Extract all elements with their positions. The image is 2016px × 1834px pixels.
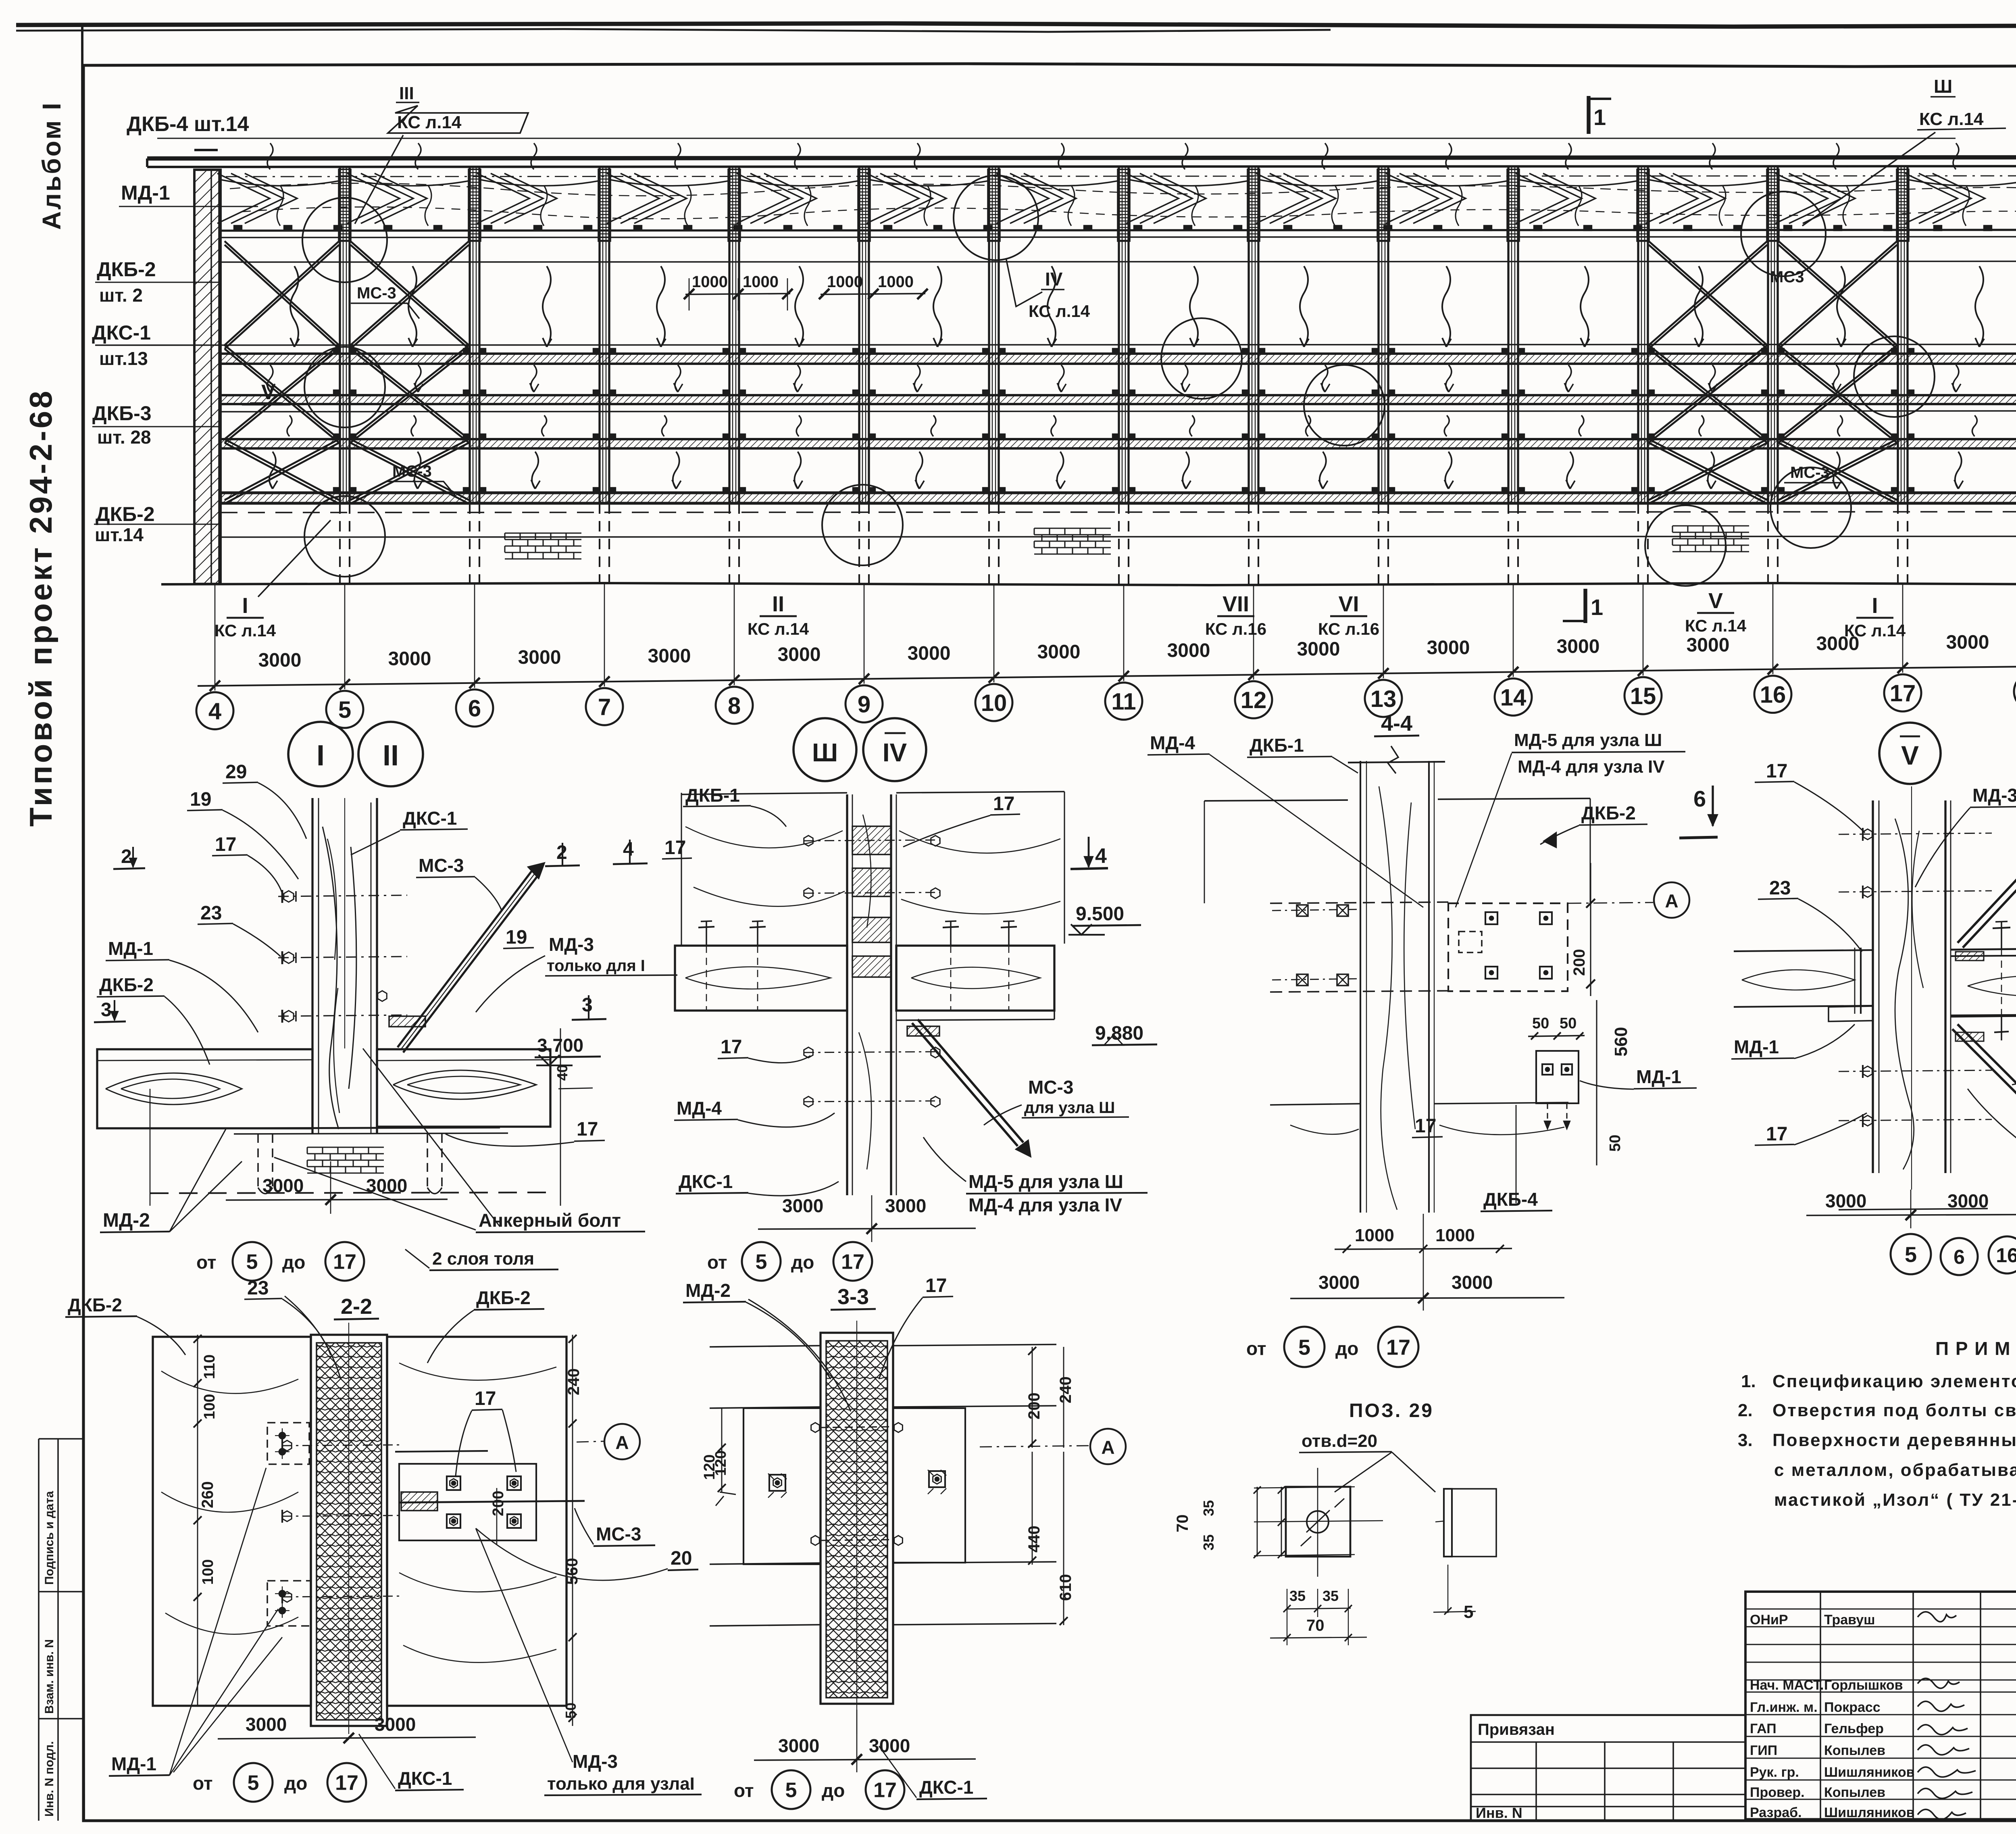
detail 4-4 dashed lines top — [1270, 902, 1448, 903]
svg-text:КС л.14: КС л.14 — [748, 619, 809, 638]
detail 4-4 bottom dims 1000 1000 — [1335, 1248, 1512, 1249]
svg-text:17: 17 — [841, 1250, 864, 1274]
svg-text:17: 17 — [335, 1771, 358, 1795]
svg-text:МС-3: МС-3 — [1028, 1077, 1073, 1098]
svg-text:1000: 1000 — [743, 273, 779, 291]
svg-text:9: 9 — [858, 691, 871, 717]
svg-text:240: 240 — [1057, 1376, 1075, 1403]
svg-text:12: 12 — [1241, 687, 1267, 713]
svg-text:ДКС-1: ДКС-1 — [679, 1171, 733, 1192]
detail III-IV column — [846, 794, 848, 1195]
svg-text:3000: 3000 — [1318, 1272, 1360, 1293]
detail 4-4 lower plate with bolts — [1536, 1051, 1579, 1103]
svg-text:5: 5 — [1905, 1242, 1917, 1267]
svg-text:V: V — [1708, 589, 1723, 613]
svg-text:3000: 3000 — [1452, 1272, 1493, 1293]
svg-text:МД-4: МД-4 — [1150, 732, 1195, 753]
title block signatures scribbles — [1918, 1612, 1956, 1622]
svg-text:КС л.14: КС л.14 — [397, 113, 462, 132]
svg-text:МД-4 для узла IV: МД-4 для узла IV — [1518, 757, 1665, 777]
svg-text:260: 260 — [199, 1481, 217, 1508]
svg-text:610: 610 — [1057, 1574, 1075, 1601]
detail 4-4 top wood edges — [1204, 800, 1348, 801]
svg-text:Поверхности деревянных элеме: Поверхности деревянных элементов, соприк… — [1772, 1430, 2016, 1450]
svg-text:1000: 1000 — [878, 273, 914, 291]
svg-text:отв.d=20: отв.d=20 — [1302, 1431, 1377, 1451]
svg-text:КС л.14: КС л.14 — [1685, 616, 1747, 635]
svg-text:6: 6 — [468, 696, 481, 722]
svg-text:17: 17 — [664, 837, 686, 859]
detail III-IV stud bolts on beams — [706, 921, 707, 946]
svg-text:МД-1: МД-1 — [1636, 1066, 1681, 1087]
svg-text:ДКБ-1: ДКБ-1 — [685, 785, 740, 806]
svg-text:17: 17 — [475, 1388, 496, 1409]
svg-text:от: от — [1246, 1338, 1266, 1359]
section cut mark 1 bottom — [1583, 589, 1587, 623]
svg-text:5: 5 — [1298, 1335, 1310, 1359]
svg-text:МД-3: МД-3 — [1972, 785, 2016, 806]
svg-text:Ш: Ш — [1934, 76, 1952, 97]
svg-text:А: А — [1665, 890, 1678, 911]
svg-text:ДКБ-2: ДКБ-2 — [99, 974, 154, 995]
svg-text:Копылев: Копылев — [1824, 1743, 1885, 1758]
detail I-II column — [311, 798, 313, 1134]
svg-text:от: от — [193, 1773, 212, 1794]
title block привязан table — [1471, 1715, 1745, 1821]
svg-text:15: 15 — [1630, 683, 1656, 709]
svg-text:120: 120 — [701, 1455, 718, 1480]
svg-text:5: 5 — [785, 1779, 797, 1802]
detail 2-2 right beam — [387, 1337, 566, 1706]
svg-text:МС-3: МС-3 — [357, 284, 396, 302]
svg-text:шт.14: шт.14 — [95, 524, 144, 545]
svg-text:17: 17 — [215, 834, 236, 855]
svg-text:МД-2: МД-2 — [103, 1210, 150, 1231]
svg-text:до: до — [284, 1773, 307, 1794]
svg-text:5: 5 — [246, 1250, 258, 1274]
dim 1000 1000 pair B — [821, 294, 925, 294]
svg-text:ДКБ-2: ДКБ-2 — [97, 258, 156, 281]
svg-text:100: 100 — [200, 1559, 217, 1585]
svg-text:I: I — [1872, 594, 1878, 618]
svg-text:ДКБ-2: ДКБ-2 — [1581, 802, 1636, 823]
svg-text:17: 17 — [1890, 680, 1916, 707]
svg-text:20: 20 — [671, 1548, 692, 1569]
svg-text:560: 560 — [563, 1558, 581, 1585]
detail 4-4 dim 560 — [1596, 1000, 1597, 1165]
detail V bottom cut lines — [1839, 1209, 1988, 1210]
svg-text:1: 1 — [1593, 104, 1606, 130]
svg-text:МД-2: МД-2 — [685, 1280, 731, 1301]
svg-text:17: 17 — [993, 793, 1014, 815]
posts at grid lines — [339, 167, 341, 503]
svg-text:МС3: МС3 — [1770, 268, 1804, 286]
detail III-IV top wood area — [681, 793, 847, 794]
svg-text:только для I: только для I — [547, 957, 645, 975]
svg-text:для узла Ш: для узла Ш — [1024, 1099, 1115, 1117]
detail 4-4 bottom dims 3000 3000 — [1290, 1298, 1564, 1298]
brick patch 2 — [1034, 527, 1111, 529]
svg-text:3000: 3000 — [1557, 636, 1600, 657]
brick patch 1 — [505, 532, 581, 534]
svg-text:3000: 3000 — [1687, 634, 1730, 656]
svg-text:1: 1 — [1591, 594, 1603, 620]
detail V grid circles — [1891, 1234, 1931, 1274]
svg-text:КС л.14: КС л.14 — [1029, 302, 1090, 321]
detail 3-3 left dim 120 — [721, 1408, 723, 1492]
detail III-IV hatched packs — [852, 826, 891, 854]
svg-text:70: 70 — [1306, 1617, 1325, 1634]
svg-text:МД-5 для узла Ш: МД-5 для узла Ш — [968, 1171, 1123, 1192]
detail I-II bottom dims — [226, 1199, 448, 1200]
svg-text:ДКБ-2: ДКБ-2 — [476, 1287, 531, 1308]
svg-text:до: до — [791, 1252, 814, 1273]
svg-text:II: II — [772, 592, 784, 616]
svg-text:5: 5 — [338, 697, 351, 723]
svg-text:1000: 1000 — [1355, 1225, 1394, 1245]
svg-text:ДКБ-4 шт.14: ДКБ-4 шт.14 — [127, 113, 249, 136]
svg-text:2.: 2. — [1738, 1401, 1753, 1420]
svg-text:3000: 3000 — [1946, 632, 1989, 653]
svg-text:3000: 3000 — [869, 1735, 910, 1756]
svg-text:3000: 3000 — [1167, 640, 1210, 661]
svg-text:200: 200 — [490, 1491, 507, 1516]
detail V bolt rows — [1839, 833, 1992, 834]
svg-text:2: 2 — [121, 846, 132, 867]
dimension row 3000 — [198, 666, 2016, 686]
svg-text:МД-4: МД-4 — [677, 1098, 722, 1119]
svg-text:3000: 3000 — [648, 646, 691, 667]
svg-text:ДКС-1: ДКС-1 — [919, 1777, 973, 1798]
detail I-II brick patch — [307, 1146, 384, 1148]
svg-text:Нач. МАСТ.: Нач. МАСТ. — [1750, 1678, 1824, 1693]
svg-text:200: 200 — [1025, 1392, 1043, 1419]
detail 2-2 right dim chain — [572, 1335, 573, 1726]
sheet top edge line — [16, 23, 2016, 27]
detail III-IV diagonal МС-3 — [912, 1023, 1018, 1146]
поз.29 square plate — [1286, 1487, 1350, 1557]
svg-text:70: 70 — [1174, 1515, 1191, 1533]
detail I-II dashed ground line — [150, 1192, 550, 1193]
svg-text:200: 200 — [1570, 949, 1588, 976]
detail V beam right — [1951, 955, 2016, 956]
svg-text:19: 19 — [506, 927, 527, 948]
svg-text:35: 35 — [1322, 1588, 1339, 1604]
detail I-II beam right — [377, 1049, 550, 1127]
svg-text:17: 17 — [1766, 1123, 1787, 1145]
svg-text:3000: 3000 — [1825, 1190, 1866, 1211]
svg-text:ДКБ-2: ДКБ-2 — [96, 503, 155, 525]
detail 4-4 column — [1360, 761, 1361, 1213]
ground line — [161, 583, 2016, 585]
svg-text:мастикой „Изол“ ( ТУ 21-27: мастикой „Изол“ ( ТУ 21-27-37-74). — [1774, 1490, 2016, 1510]
svg-text:3: 3 — [101, 999, 112, 1021]
detail I-II vertical dim line right — [560, 1028, 561, 1206]
svg-text:23: 23 — [200, 902, 222, 924]
svg-text:ДКС-1: ДКС-1 — [92, 321, 151, 344]
detail V node circle — [1879, 723, 1941, 784]
level line ДКБ-2 — [221, 261, 2016, 262]
svg-text:Альбом I: Альбом I — [37, 101, 66, 230]
axis circle A right of 3-3 — [980, 1446, 1089, 1447]
svg-text:Гельфер: Гельфер — [1824, 1721, 1884, 1736]
svg-text:Ш: Ш — [812, 738, 838, 767]
svg-text:3-3: 3-3 — [837, 1285, 869, 1309]
svg-text:3000: 3000 — [1297, 639, 1340, 660]
svg-text:шт. 28: шт. 28 — [97, 427, 151, 448]
detail III-IV lower bolts — [804, 1052, 939, 1052]
section cut mark 1 top — [1587, 96, 1590, 134]
svg-text:3000: 3000 — [778, 644, 821, 665]
svg-text:3000: 3000 — [1816, 633, 1860, 654]
поз.29 side view bar — [1444, 1489, 1452, 1557]
svg-text:МД-1: МД-1 — [121, 181, 170, 204]
svg-text:ДКБ-1: ДКБ-1 — [1250, 735, 1304, 756]
svg-text:3000: 3000 — [258, 650, 302, 671]
svg-text:17: 17 — [1386, 1335, 1410, 1359]
detail I-II diagonal brace МС-3 — [398, 870, 533, 1047]
detail V column — [1872, 800, 1874, 1173]
svg-text:Копылев: Копылев — [1824, 1785, 1885, 1800]
detail III-IV bolts through packs — [804, 840, 939, 841]
beam bottom chord ДКБ-2 hatched — [221, 493, 2016, 503]
detail 2-2 bolts through column — [282, 1445, 399, 1446]
svg-text:23: 23 — [1769, 877, 1791, 899]
detail 3-3 bottom dims — [754, 1759, 976, 1760]
svg-text:Инв. N: Инв. N — [1476, 1805, 1522, 1821]
detail III-IV beam right — [896, 946, 1054, 1011]
svg-text:17: 17 — [1766, 761, 1787, 782]
svg-text:100: 100 — [201, 1394, 218, 1419]
beam ДКБ-3 row2 hatched — [221, 395, 2016, 404]
svg-text:5: 5 — [248, 1771, 259, 1795]
detail 4-4 dashed plate МД-5 — [1448, 903, 1568, 991]
detail 3-3 beam lines — [710, 1346, 821, 1347]
svg-text:35: 35 — [1289, 1588, 1306, 1604]
svg-text:Отверстия под болты сверлит: Отверстия под болты сверлить на монтаже … — [1772, 1401, 2016, 1420]
top chord beam МД-1 — [147, 157, 2016, 158]
svg-text:КС л.14: КС л.14 — [1919, 109, 1984, 129]
svg-text:1000: 1000 — [1435, 1225, 1475, 1245]
svg-text:16: 16 — [1760, 682, 1786, 708]
svg-text:КС л.14: КС л.14 — [215, 621, 276, 640]
svg-text:2-2: 2-2 — [341, 1294, 372, 1319]
svg-text:3000: 3000 — [518, 647, 561, 668]
svg-text:от: от — [196, 1252, 216, 1273]
svg-text:4: 4 — [1095, 844, 1107, 868]
svg-text:3000: 3000 — [782, 1195, 823, 1216]
svg-text:110: 110 — [201, 1355, 218, 1379]
svg-text:КС л.16: КС л.16 — [1318, 619, 1379, 638]
detail 2-2 dashed plates left — [267, 1423, 309, 1464]
detail 2-2 column crosshatched — [311, 1335, 387, 1726]
detail 2-2 left beam — [153, 1337, 311, 1706]
detail 3-3 stud bolts — [821, 1427, 893, 1428]
svg-text:Рук. гр.: Рук. гр. — [1750, 1765, 1799, 1780]
svg-text:4: 4 — [208, 698, 221, 724]
svg-text:50: 50 — [1560, 1015, 1577, 1032]
beam ДКБ-3 row3 hatched — [221, 439, 2016, 448]
svg-text:от: от — [734, 1780, 754, 1801]
svg-text:17: 17 — [577, 1119, 598, 1140]
svg-text:35: 35 — [1200, 1500, 1217, 1516]
long grain waves top band — [230, 183, 2016, 196]
svg-text:3000: 3000 — [778, 1735, 819, 1756]
svg-text:А: А — [1101, 1437, 1114, 1458]
svg-text:МС-3: МС-3 — [419, 855, 464, 876]
svg-text:Разраб.: Разраб. — [1750, 1805, 1802, 1820]
svg-text:IV: IV — [1045, 269, 1063, 290]
svg-text:II: II — [383, 740, 399, 772]
svg-text:V: V — [1901, 740, 1919, 770]
detail III-IV node circles — [793, 718, 856, 781]
svg-text:А: А — [615, 1432, 629, 1453]
level line mid — [221, 411, 2016, 412]
svg-text:6: 6 — [1954, 1246, 1965, 1268]
detail I-II beam left — [97, 1049, 312, 1128]
detail V beam left — [1734, 950, 1873, 951]
svg-text:ДКС-1: ДКС-1 — [398, 1768, 452, 1789]
axis circle A right of 2-2 — [577, 1441, 605, 1442]
svg-text:до: до — [1335, 1338, 1358, 1359]
svg-text:16: 16 — [1996, 1244, 2016, 1267]
svg-text:50: 50 — [562, 1703, 579, 1719]
поз.29 bottom dims 35 35 70 — [1286, 1608, 1351, 1609]
svg-text:50: 50 — [1532, 1015, 1549, 1032]
svg-text:Шишляников: Шишляников — [1824, 1805, 1915, 1820]
svg-text:МД-1: МД-1 — [108, 938, 153, 959]
sheet left edge line — [82, 24, 84, 1821]
svg-text:МД-5 для узла Ш: МД-5 для узла Ш — [1514, 730, 1662, 750]
поз.29 left dims 70 35 35 — [1257, 1487, 1258, 1557]
svg-text:КС л.16: КС л.16 — [1205, 619, 1266, 638]
svg-text:VI: VI — [1338, 592, 1359, 616]
svg-text:50: 50 — [1607, 1135, 1624, 1152]
svg-text:МД-1: МД-1 — [1734, 1036, 1779, 1057]
svg-text:3000: 3000 — [1427, 637, 1470, 659]
wall left hatched — [194, 170, 221, 584]
svg-text:3000: 3000 — [246, 1714, 287, 1735]
svg-text:ДКБ-3: ДКБ-3 — [92, 402, 152, 425]
svg-text:240: 240 — [565, 1368, 583, 1395]
svg-text:9.500: 9.500 — [1076, 903, 1124, 925]
svg-text:11: 11 — [1111, 689, 1136, 715]
detail 3-3 column crosshatched — [821, 1333, 893, 1704]
svg-text:40: 40 — [554, 1065, 571, 1081]
svg-text:МД-4 для узла IV: МД-4 для узла IV — [968, 1194, 1122, 1215]
svg-text:Гл.инж. м.: Гл.инж. м. — [1750, 1700, 1818, 1715]
svg-text:17: 17 — [1415, 1115, 1436, 1137]
svg-text:Типовой проект 294-2-68: Типовой проект 294-2-68 — [23, 389, 58, 827]
svg-text:от: от — [707, 1252, 727, 1273]
svg-text:10: 10 — [981, 690, 1007, 716]
svg-text:МС-3: МС-3 — [1790, 464, 1830, 481]
left margin stamp boxes — [38, 1439, 40, 1821]
svg-text:17: 17 — [873, 1779, 897, 1802]
svg-text:14: 14 — [1500, 684, 1527, 711]
svg-text:3000: 3000 — [885, 1195, 926, 1216]
svg-text:4: 4 — [623, 839, 634, 860]
detail I-II base plate and anchor bolts — [242, 1127, 500, 1128]
purlin bolt row — [221, 230, 2016, 231]
svg-text:МД-1: МД-1 — [111, 1753, 156, 1774]
level line ДКС-1 — [95, 344, 2016, 345]
svg-text:Спецификацию элементов ом.: Спецификацию элементов ом. КС л. 20. — [1772, 1371, 2016, 1391]
svg-text:ГИП: ГИП — [1750, 1743, 1777, 1758]
svg-text:с металлом, обрабатывать рези: с металлом, обрабатывать резинобитумной — [1774, 1460, 2016, 1480]
svg-text:6: 6 — [1693, 786, 1706, 811]
level line bottom ДКБ-2 — [221, 536, 2016, 537]
svg-text:3000: 3000 — [1947, 1190, 1989, 1211]
svg-text:III: III — [399, 83, 414, 103]
svg-text:7: 7 — [598, 694, 611, 720]
svg-text:Подпись и дата: Подпись и дата — [43, 1491, 56, 1585]
detail 3-3 right plate — [893, 1408, 965, 1563]
svg-text:V: V — [261, 381, 275, 404]
svg-text:3000: 3000 — [388, 648, 431, 669]
detail III-IV beam left — [675, 946, 847, 1011]
X bracing bays 4-5 5-6 15-16 16-17 — [225, 241, 339, 345]
detail I-II bolts rows — [278, 895, 407, 896]
detail 2-2 left dim chain — [197, 1335, 198, 1706]
svg-text:VII: VII — [1223, 592, 1249, 616]
node circles on elevation — [302, 198, 387, 282]
svg-text:440: 440 — [1025, 1526, 1043, 1553]
wood grain chevrons top band — [217, 173, 2016, 223]
svg-text:1000: 1000 — [827, 273, 863, 291]
svg-text:до: до — [822, 1780, 845, 1801]
svg-text:4-4: 4-4 — [1381, 711, 1412, 736]
beam ДКБ-2 row1 hatched — [221, 354, 2016, 364]
svg-text:МС-3: МС-3 — [392, 463, 432, 480]
svg-text:только для узлаI: только для узлаI — [547, 1774, 695, 1794]
svg-text:3000: 3000 — [908, 643, 951, 664]
detail 4-4 axis line and A circle — [1568, 902, 1653, 903]
svg-text:3.: 3. — [1738, 1430, 1753, 1450]
svg-text:560: 560 — [1611, 1027, 1631, 1057]
svg-text:1.: 1. — [1741, 1371, 1756, 1391]
svg-text:I: I — [317, 740, 325, 772]
svg-text:Инв. N подл.: Инв. N подл. — [43, 1741, 56, 1817]
detail 4-4 dim 50 50 — [1528, 1036, 1585, 1036]
svg-text:3000: 3000 — [375, 1714, 416, 1735]
svg-text:3: 3 — [582, 994, 593, 1016]
svg-text:до: до — [282, 1252, 305, 1273]
svg-text:13: 13 — [1370, 686, 1397, 712]
brick patch 3 — [1672, 525, 1749, 526]
detail V diagonals МС-3 — [1958, 831, 2016, 943]
svg-text:17: 17 — [721, 1036, 742, 1058]
svg-text:П Р И М Е Ч А Н И Я :: П Р И М Е Ч А Н И Я : — [1935, 1338, 2016, 1359]
svg-text:IV: IV — [883, 738, 907, 767]
svg-text:17: 17 — [925, 1275, 947, 1296]
svg-text:17: 17 — [333, 1250, 356, 1274]
svg-text:3000: 3000 — [262, 1175, 304, 1196]
dash-dot line top band — [226, 176, 2016, 177]
svg-text:ДКС-1: ДКС-1 — [403, 808, 457, 829]
svg-text:МД-3: МД-3 — [549, 934, 594, 955]
svg-text:ДКБ-2: ДКБ-2 — [68, 1294, 122, 1315]
detail 4-4 beam bottom lines — [1270, 1104, 1360, 1105]
detail 4-4 left bolts — [1297, 905, 1308, 916]
svg-text:29: 29 — [225, 761, 247, 783]
svg-text:Взам. инв. N: Взам. инв. N — [43, 1639, 56, 1714]
svg-text:8: 8 — [728, 693, 741, 719]
svg-text:I: I — [242, 594, 248, 618]
svg-text:ГАП: ГАП — [1750, 1721, 1776, 1736]
dim 1000 1000 pair A — [685, 294, 790, 294]
svg-text:Анкерный болт: Анкерный болт — [479, 1210, 621, 1231]
